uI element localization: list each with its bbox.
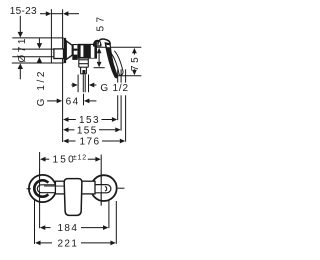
svg-text:15-23: 15-23 (10, 6, 37, 17)
svg-text:64: 64 (66, 97, 80, 108)
svg-text:75: 75 (130, 55, 141, 71)
svg-text:221: 221 (57, 239, 78, 250)
svg-text:Ø71: Ø71 (17, 36, 28, 63)
svg-text:G 1/2: G 1/2 (100, 83, 128, 94)
svg-text:184: 184 (57, 223, 78, 234)
svg-text:G 1/2: G 1/2 (36, 69, 47, 106)
svg-text:±12: ±12 (73, 155, 87, 162)
svg-text:155: 155 (77, 126, 98, 137)
svg-text:57: 57 (95, 14, 106, 32)
svg-text:176: 176 (80, 136, 101, 147)
